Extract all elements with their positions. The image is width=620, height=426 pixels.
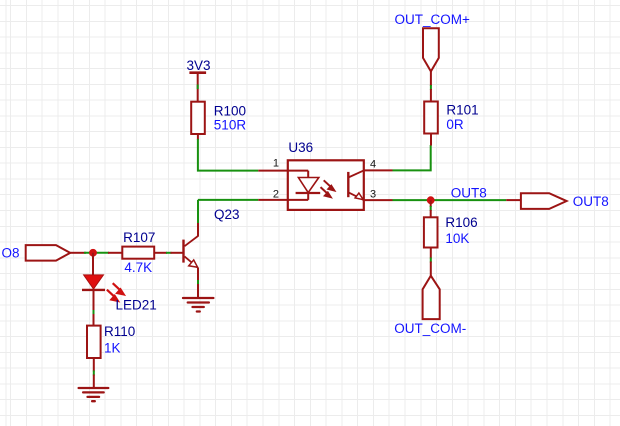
wire tick: [197, 85, 199, 90]
resistor R106: [424, 217, 438, 247]
wire LED21 to R110: [93, 290, 95, 311]
LED21 diode: [84, 275, 104, 289]
op-coupler U36 body: [288, 160, 364, 210]
wire R110 to ground: [93, 358, 95, 372]
wire net to pin1: [198, 139, 258, 171]
svg-text:OUT8: OUT8: [573, 194, 609, 209]
wire R107 to Q23 base: [154, 252, 167, 254]
resistor R101: [424, 102, 438, 134]
U36 LED cathode bar: [296, 192, 321, 194]
ground under R110: [79, 388, 109, 401]
wire Q23 emitter to ground: [197, 268, 199, 281]
wire to port OUT8: [506, 199, 521, 201]
U36 LED triangle: [298, 178, 318, 193]
svg-text:OUT_COM+: OUT_COM+: [395, 12, 471, 27]
pin 4 stub: [364, 169, 393, 171]
svg-text:OUT8: OUT8: [451, 185, 487, 200]
svg-text:0R: 0R: [446, 117, 464, 132]
wire junction to R106: [430, 200, 432, 207]
wire R101 lead down: [430, 134, 432, 146]
LED21 cathode bar: [82, 289, 105, 291]
svg-text:4: 4: [370, 159, 376, 171]
svg-text:R107: R107: [123, 230, 155, 245]
Q23 collector: [185, 236, 199, 246]
U36 light arrow 2: [321, 187, 328, 193]
wire net to pin2: [198, 199, 258, 201]
svg-text:R106: R106: [445, 215, 477, 230]
wire R100 lead down: [197, 134, 199, 140]
svg-text:510R: 510R: [214, 117, 247, 132]
port OUT8: [521, 193, 567, 209]
U36 LED anode line: [288, 171, 308, 200]
U36 light arrow 1: [324, 180, 331, 186]
LED21 light arrow 2: [107, 290, 115, 297]
resistor R100: [191, 102, 205, 134]
Q23 emitter arrow: [189, 260, 198, 267]
U36 collector: [348, 170, 364, 177]
ground under Q23: [183, 298, 213, 312]
port OUT_COM-: [423, 276, 440, 319]
wire pin4 to R101 column: [393, 145, 431, 170]
svg-text:R100: R100: [214, 103, 246, 118]
wire pin3 to OUT8: [393, 199, 507, 201]
svg-text:1: 1: [273, 158, 279, 170]
power port 3V3 bar: [189, 71, 206, 74]
Q23 base bar: [182, 240, 184, 263]
wire R106 to OUT_COM-: [430, 248, 432, 259]
svg-text:4.7K: 4.7K: [124, 260, 152, 275]
svg-text:3: 3: [370, 189, 376, 201]
wire Q23 collector to pin2: [197, 200, 199, 223]
wire OUT_COM+ to R101: [430, 71, 432, 86]
wire junction down to LED21: [92, 253, 94, 275]
pin 1 stub: [258, 170, 288, 172]
wire O8 to junction: [70, 252, 86, 254]
resistor R110: [87, 326, 101, 358]
svg-text:3V3: 3V3: [187, 58, 211, 73]
svg-text:OUT_COM-: OUT_COM-: [394, 321, 466, 336]
LED21 light arrow 1: [113, 283, 121, 290]
Q23 emitter: [185, 256, 199, 267]
svg-text:10K: 10K: [445, 231, 469, 246]
pin 3 stub: [364, 199, 393, 201]
svg-text:LED21: LED21: [116, 298, 157, 313]
svg-text:2: 2: [273, 189, 279, 201]
U36 phototransistor base bar: [347, 172, 349, 197]
U36 emitter arrow: [355, 193, 363, 200]
U36 emitter: [348, 192, 364, 200]
svg-text:O8: O8: [2, 245, 20, 260]
svg-text:1K: 1K: [104, 341, 121, 356]
svg-text:U36: U36: [288, 140, 313, 155]
svg-text:R101: R101: [446, 103, 478, 118]
junction O8: [89, 249, 97, 257]
pin 2 stub: [258, 199, 288, 201]
svg-text:R110: R110: [104, 324, 135, 339]
resistor R107: [122, 247, 154, 259]
wire 3V3 to R100: [197, 73, 199, 102]
svg-text:Q23: Q23: [214, 207, 240, 222]
junction OUT8: [427, 196, 435, 204]
